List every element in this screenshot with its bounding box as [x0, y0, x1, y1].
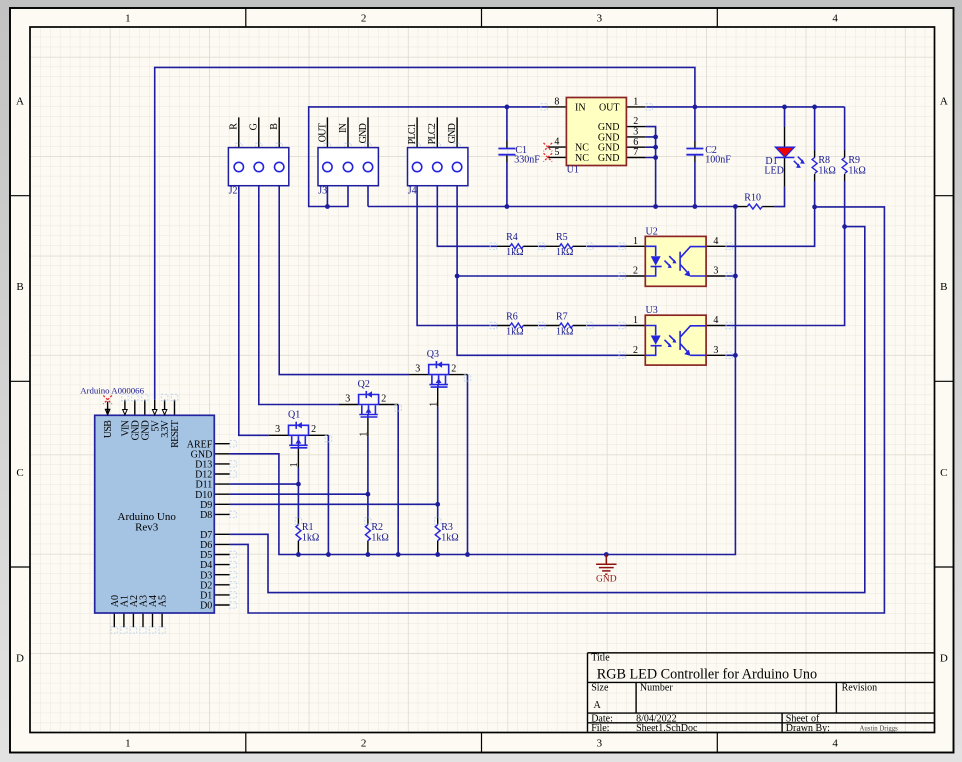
svg-text:OUT: OUT [317, 123, 328, 142]
svg-text:330nF: 330nF [514, 155, 540, 166]
svg-text:3: 3 [713, 345, 718, 356]
svg-text:LED: LED [764, 166, 783, 177]
svg-text:D: D [940, 652, 948, 664]
svg-text:R7: R7 [556, 311, 568, 322]
svg-text:Revision: Revision [842, 683, 878, 694]
svg-text:4: 4 [832, 13, 838, 25]
svg-text:2: 2 [451, 364, 456, 375]
svg-text:1kΩ: 1kΩ [441, 532, 458, 543]
svg-text:Sheet1.SchDoc: Sheet1.SchDoc [636, 723, 698, 734]
svg-text:1kΩ: 1kΩ [556, 247, 573, 258]
svg-text:GND: GND [358, 123, 369, 143]
svg-text:Rev3: Rev3 [135, 522, 159, 534]
svg-text:A: A [940, 95, 948, 107]
svg-text:R10: R10 [744, 192, 761, 203]
svg-text:Arduino A000066: Arduino A000066 [80, 386, 144, 396]
svg-text:C: C [940, 467, 947, 479]
svg-text:2: 2 [633, 345, 638, 356]
svg-text:A5: A5 [158, 595, 169, 607]
svg-text:Size: Size [591, 683, 609, 694]
svg-text:1kΩ: 1kΩ [506, 247, 523, 258]
svg-text:1: 1 [125, 13, 131, 25]
svg-text:D: D [16, 652, 24, 664]
svg-text:A: A [16, 95, 24, 107]
svg-text:B: B [16, 281, 23, 293]
svg-text:Austin Driggs: Austin Driggs [860, 726, 899, 733]
svg-text:3: 3 [597, 13, 603, 25]
svg-text:3: 3 [415, 364, 420, 375]
svg-text:PLC1: PLC1 [407, 123, 418, 144]
svg-text:1: 1 [633, 315, 638, 326]
svg-text:B: B [269, 123, 280, 130]
svg-text:1: 1 [125, 738, 131, 750]
svg-text:2: 2 [361, 13, 367, 25]
svg-text:1: 1 [359, 432, 370, 437]
svg-text:GND: GND [598, 153, 620, 164]
svg-text:3: 3 [345, 393, 350, 404]
svg-text:USB: USB [103, 420, 114, 438]
svg-text:D8: D8 [200, 510, 212, 521]
svg-text:1: 1 [429, 402, 440, 407]
svg-text:8: 8 [554, 97, 559, 108]
svg-text:R: R [229, 123, 240, 130]
svg-text:1: 1 [289, 462, 300, 467]
svg-text:IN: IN [575, 102, 586, 113]
svg-text:R6: R6 [506, 311, 518, 322]
svg-text:File:: File: [591, 723, 609, 734]
svg-text:2: 2 [381, 393, 386, 404]
svg-text:U3: U3 [646, 305, 658, 316]
svg-text:B: B [940, 281, 947, 293]
svg-text:J4: J4 [408, 185, 417, 196]
svg-text:1kΩ: 1kΩ [556, 326, 573, 337]
svg-text:Drawn By:: Drawn By: [786, 723, 830, 734]
svg-text:A: A [594, 700, 602, 711]
svg-text:100nF: 100nF [705, 155, 731, 166]
svg-text:3: 3 [713, 266, 718, 277]
svg-text:G: G [249, 123, 260, 130]
svg-text:1kΩ: 1kΩ [848, 165, 865, 176]
svg-text:Title: Title [591, 653, 610, 664]
svg-text:D0: D0 [200, 601, 212, 612]
svg-text:RESET: RESET [170, 420, 181, 448]
svg-text:Q2: Q2 [358, 379, 370, 390]
svg-text:5: 5 [554, 147, 559, 158]
svg-text:J3: J3 [318, 185, 327, 196]
svg-text:2: 2 [311, 424, 316, 435]
svg-text:U2: U2 [646, 226, 658, 237]
svg-text:4: 4 [713, 315, 718, 326]
svg-text:4: 4 [832, 738, 838, 750]
svg-text:PLC2: PLC2 [427, 123, 438, 144]
svg-text:1kΩ: 1kΩ [371, 532, 388, 543]
svg-text:3: 3 [597, 738, 603, 750]
svg-text:Q1: Q1 [288, 410, 300, 421]
svg-text:2: 2 [361, 738, 367, 750]
svg-text:OUT: OUT [599, 102, 620, 113]
svg-text:1kΩ: 1kΩ [506, 326, 523, 337]
svg-text:1kΩ: 1kΩ [302, 532, 319, 543]
svg-text:2: 2 [633, 266, 638, 277]
svg-text:C: C [16, 467, 23, 479]
svg-text:R4: R4 [506, 232, 518, 243]
svg-text:IN: IN [338, 123, 349, 133]
svg-text:1: 1 [633, 97, 638, 108]
svg-text:1: 1 [633, 236, 638, 247]
svg-text:1kΩ: 1kΩ [818, 165, 835, 176]
svg-text:Q3: Q3 [427, 349, 439, 360]
svg-text:3: 3 [275, 424, 280, 435]
svg-text:7: 7 [633, 147, 638, 158]
svg-text:RGB LED Controller for Arduino: RGB LED Controller for Arduino Uno [597, 667, 817, 683]
svg-text:U1: U1 [567, 165, 579, 176]
svg-text:J2: J2 [229, 185, 238, 196]
svg-text:GND: GND [596, 575, 617, 585]
svg-text:R5: R5 [556, 232, 568, 243]
svg-text:NC: NC [575, 153, 589, 164]
svg-text:GND: GND [447, 123, 458, 143]
svg-text:Number: Number [640, 683, 673, 694]
svg-text:4: 4 [713, 236, 718, 247]
